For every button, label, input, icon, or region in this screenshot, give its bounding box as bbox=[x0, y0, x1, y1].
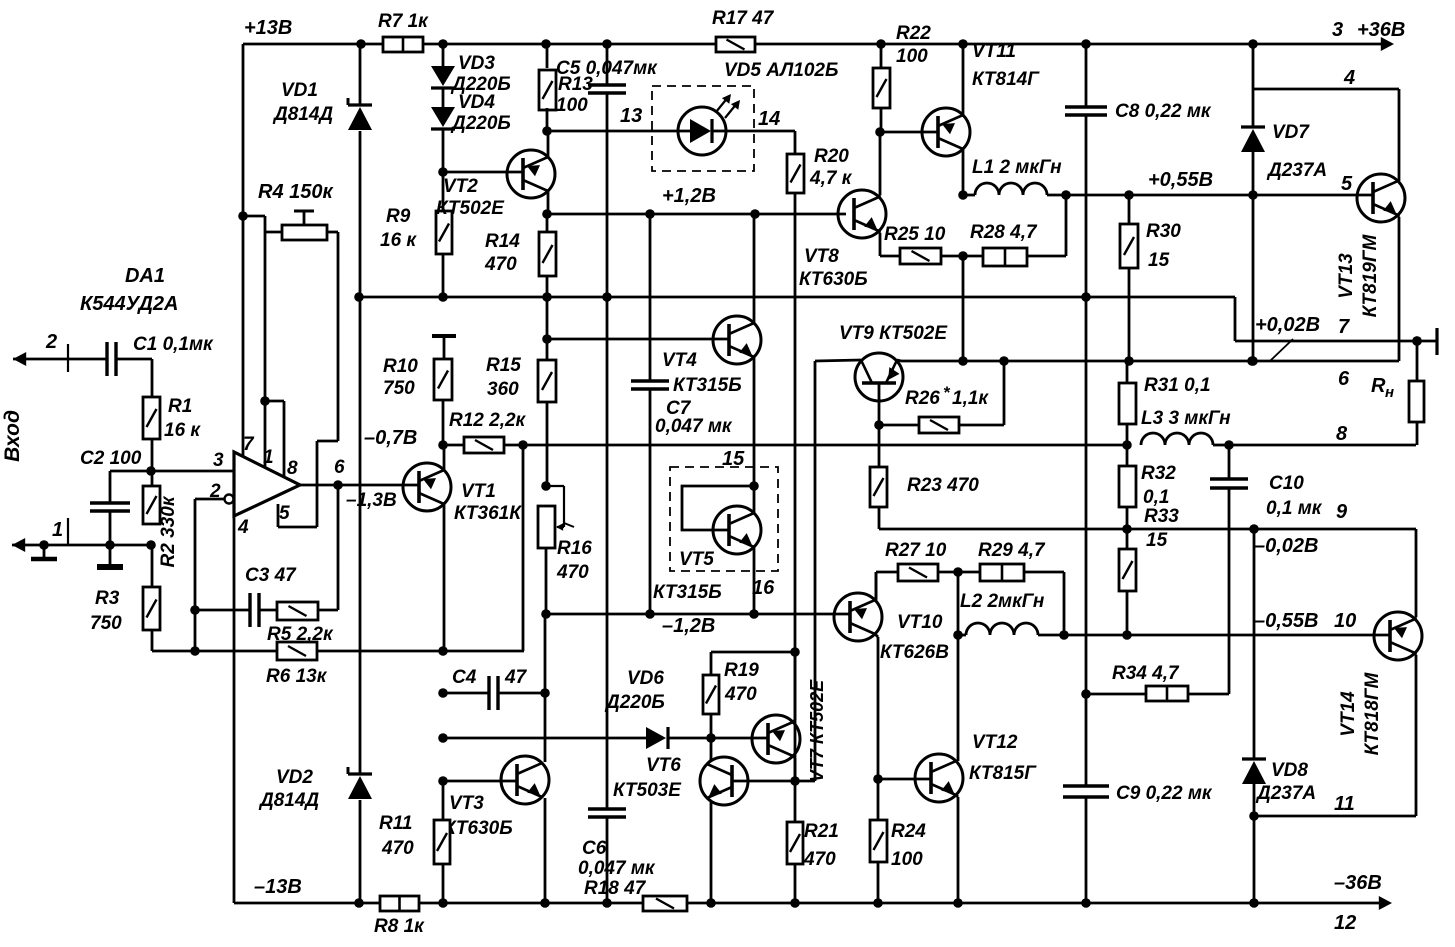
svg-text:VT3: VT3 bbox=[449, 793, 484, 814]
svg-text:VT5: VT5 bbox=[679, 549, 714, 570]
diode VD6 D220B bbox=[646, 727, 666, 749]
wire to C2 bbox=[110, 470, 151, 473]
svg-text:16: 16 bbox=[752, 577, 775, 599]
svg-text:VD2: VD2 bbox=[276, 767, 313, 788]
ground at terminal 1 bbox=[43, 545, 46, 557]
svg-text:VD6: VD6 bbox=[627, 668, 664, 689]
resistor R30 15 bbox=[1128, 195, 1131, 224]
wire +13V vertical to op-amp pin7 bbox=[242, 44, 245, 457]
svg-text:L1 2 мкГн: L1 2 мкГн bbox=[972, 157, 1062, 178]
svg-text:VD7: VD7 bbox=[1272, 122, 1310, 143]
wire VT9 collector left bbox=[815, 360, 861, 361]
wire node down to output bus bbox=[962, 256, 965, 361]
inductor L2 2uH bbox=[966, 623, 1038, 635]
svg-text:Д220Б: Д220Б bbox=[450, 113, 511, 134]
svg-text:КТ819ГМ: КТ819ГМ bbox=[1360, 233, 1381, 317]
wire -36V bottom rail bbox=[234, 902, 380, 905]
svg-text:VD1: VD1 bbox=[281, 80, 318, 101]
wire VT9 collector vertical bbox=[814, 361, 817, 781]
ground under C2 bbox=[105, 540, 115, 550]
svg-text:4,7 к: 4,7 к bbox=[809, 168, 853, 189]
wire VT13 emitter down bbox=[1398, 215, 1399, 217]
transistor VT8 KT630B bbox=[838, 190, 886, 238]
svg-text:8: 8 bbox=[287, 458, 298, 479]
svg-text:R29 4,7: R29 4,7 bbox=[978, 540, 1046, 561]
svg-text:L3 3 мкГн: L3 3 мкГн bbox=[1141, 408, 1231, 429]
svg-text:9: 9 bbox=[1336, 501, 1348, 523]
wire output feedback bus y445 bbox=[523, 444, 1127, 447]
terminal 3 arrow +36V bbox=[1381, 37, 1394, 51]
svg-text:C9 0,22 мк: C9 0,22 мк bbox=[1116, 783, 1213, 804]
transistor VT11 KT814G bbox=[922, 108, 970, 156]
svg-text:2: 2 bbox=[45, 331, 57, 353]
svg-text:0,047 мк: 0,047 мк bbox=[655, 416, 733, 437]
svg-text:VD3: VD3 bbox=[458, 53, 495, 74]
transistor VT13 KT819GM bbox=[1357, 174, 1405, 222]
svg-text:Д814Д: Д814Д bbox=[272, 104, 333, 125]
resistor R10 750 with test tap bbox=[432, 334, 456, 338]
wire top rail right section to +36V bbox=[755, 43, 1386, 46]
wire VT3 collector bbox=[544, 693, 547, 762]
wire VT11 emitter to +36 bbox=[962, 44, 965, 115]
svg-text:100: 100 bbox=[556, 95, 588, 116]
node L1 left bbox=[958, 190, 968, 200]
resistor R6 13k bbox=[277, 642, 317, 660]
resistor R7 1k bbox=[383, 37, 423, 52]
svg-text:R25 10: R25 10 bbox=[884, 224, 946, 245]
trimmer R16 470 bbox=[541, 481, 551, 491]
load resistor Rn bbox=[1412, 336, 1422, 346]
wire VT8 collector up bbox=[879, 195, 880, 197]
wire VT9 base down bbox=[878, 383, 881, 425]
wire VT14 emitter up bbox=[1415, 617, 1416, 619]
svg-text:R23 470: R23 470 bbox=[907, 475, 979, 496]
capacitor C8 0.22uF bbox=[1085, 44, 1088, 107]
svg-text:6: 6 bbox=[334, 457, 345, 478]
svg-text:100: 100 bbox=[891, 849, 923, 870]
wire R28 right up to L1 right bbox=[1027, 255, 1066, 258]
wire C2 to ground line bbox=[109, 511, 112, 545]
node L1 right bbox=[1061, 190, 1071, 200]
svg-text:R2 330к: R2 330к bbox=[158, 495, 179, 567]
resistor R18 47 bbox=[643, 896, 687, 911]
svg-text:–36В: –36В bbox=[1334, 872, 1382, 894]
capacitor C2 100 bbox=[90, 501, 130, 504]
transistor VT5 KT315B diode-connected bbox=[713, 506, 761, 554]
svg-text:470: 470 bbox=[556, 562, 589, 583]
svg-text:–13В: –13В bbox=[254, 876, 302, 898]
resistor R21 470 bbox=[787, 822, 803, 864]
svg-text:R16: R16 bbox=[557, 538, 592, 559]
node C10 top bbox=[1224, 440, 1234, 450]
resistor R25 10 bbox=[900, 248, 941, 264]
resistor R12 2.2k bbox=[443, 444, 464, 447]
wire VT11 collector down bbox=[962, 149, 965, 195]
svg-text:R10: R10 bbox=[383, 356, 418, 377]
svg-text:R20: R20 bbox=[814, 146, 849, 167]
node R4 junction bbox=[238, 211, 248, 221]
wire feedback R6 line bbox=[152, 650, 277, 653]
node L3 left bbox=[1122, 440, 1132, 450]
bottom rail junction dots bbox=[354, 898, 364, 908]
capacitor C9 0.22uF bbox=[1063, 784, 1109, 787]
svg-text:R31 0,1: R31 0,1 bbox=[1144, 375, 1211, 396]
svg-text:R18 47: R18 47 bbox=[584, 878, 647, 899]
wire VT7 emitter up bbox=[793, 720, 795, 722]
wire VT7 collector down bbox=[793, 756, 795, 758]
svg-text:VT1: VT1 bbox=[461, 481, 496, 502]
svg-text:6: 6 bbox=[1338, 368, 1350, 390]
transistor VT3 KT630B bbox=[501, 756, 549, 804]
svg-text:1: 1 bbox=[52, 519, 63, 541]
node VT2 base bbox=[438, 167, 448, 177]
svg-text:5: 5 bbox=[279, 503, 290, 524]
transistor VT7 KT502E bbox=[752, 715, 800, 763]
svg-text:16 к: 16 к bbox=[380, 230, 417, 251]
op-amp DA1 K544UD2A bbox=[234, 452, 300, 516]
svg-text:КТ361К: КТ361К bbox=[454, 503, 522, 524]
svg-text:VT10: VT10 bbox=[897, 612, 943, 633]
svg-text:VT14: VT14 bbox=[1338, 691, 1359, 737]
wire VT10 collector up bbox=[875, 599, 876, 601]
svg-text:VT9 КТ502Е: VT9 КТ502Е bbox=[839, 323, 948, 344]
wire op-amp output bbox=[300, 484, 411, 487]
svg-text:R17 47: R17 47 bbox=[712, 8, 775, 29]
resistor R33 15 bbox=[1126, 529, 1129, 549]
capacitor C7 0.047uF bbox=[649, 214, 652, 381]
resistor R34 4.7 bbox=[1086, 693, 1146, 696]
resistor R3 750 bbox=[151, 545, 154, 587]
svg-text:КТ818ГМ: КТ818ГМ bbox=[1362, 671, 1383, 755]
resistor R15 360 bbox=[546, 297, 549, 360]
node VT8 collector R22 VT11 base bbox=[875, 127, 885, 137]
wire +0.55V line bbox=[1066, 194, 1373, 197]
wire R16 column to C4 bbox=[544, 614, 547, 693]
svg-text:16 к: 16 к bbox=[164, 420, 201, 441]
diode VD7 D237A bbox=[1252, 44, 1255, 127]
wire R4 right to op-amp pin 5 bbox=[337, 232, 340, 441]
svg-text:К544УД2А: К544УД2А bbox=[80, 293, 178, 315]
node 15 bbox=[749, 481, 759, 491]
svg-text:–0,55В: –0,55В bbox=[1254, 610, 1319, 632]
svg-text:R19: R19 bbox=[724, 660, 759, 681]
resistor R27 10 bbox=[898, 564, 938, 581]
resistor R22 100 bbox=[880, 44, 883, 68]
svg-text:VT7 КТ502Е: VT7 КТ502Е bbox=[807, 679, 827, 782]
wire VT4 collector up bbox=[753, 214, 756, 323]
svg-text:VD8: VD8 bbox=[1271, 760, 1308, 781]
svg-text:C8 0,22 мк: C8 0,22 мк bbox=[1115, 101, 1212, 122]
wire VT4 base line bbox=[547, 338, 729, 341]
svg-text:7: 7 bbox=[1338, 316, 1350, 338]
LED arrows bbox=[716, 96, 729, 112]
svg-text:VT11: VT11 bbox=[972, 41, 1016, 62]
svg-text:R30: R30 bbox=[1146, 221, 1181, 242]
svg-text:100: 100 bbox=[896, 46, 928, 67]
wire R25 to R28 node bbox=[941, 255, 983, 258]
svg-text:5: 5 bbox=[1341, 173, 1353, 195]
chassis tick terminal 7 bbox=[1435, 328, 1438, 355]
svg-text:Д237А: Д237А bbox=[1266, 160, 1327, 181]
svg-text:13: 13 bbox=[620, 105, 642, 127]
svg-text:11: 11 bbox=[1334, 793, 1355, 815]
node C4 right bbox=[540, 688, 550, 698]
terminal 12 arrow -36V bbox=[1379, 896, 1392, 910]
wire output bus bbox=[901, 360, 1399, 363]
wire R20 down long vertical bbox=[794, 193, 797, 822]
wire -1.2V line bbox=[546, 613, 850, 616]
svg-text:R11: R11 bbox=[379, 813, 412, 834]
svg-text:3: 3 bbox=[1332, 19, 1343, 41]
svg-text:R21: R21 bbox=[804, 821, 839, 842]
svg-text:C3 47: C3 47 bbox=[245, 565, 297, 586]
svg-text:1,1к: 1,1к bbox=[952, 388, 989, 409]
svg-text:+1,2В: +1,2В bbox=[662, 185, 716, 207]
capacitor C10 0.1uF bbox=[1228, 445, 1231, 479]
svg-text:R3: R3 bbox=[95, 588, 120, 609]
transistor VT10 KT626V bbox=[834, 593, 882, 641]
wire VT14 collector down bbox=[1415, 653, 1416, 655]
wire VT1 emitter up bbox=[443, 445, 446, 470]
capacitor C4 47 bbox=[443, 692, 489, 695]
wire VT3 emitter to rail bbox=[544, 798, 547, 903]
node R34 left bbox=[1081, 689, 1091, 699]
transistor VT2 KT502E bbox=[507, 150, 555, 198]
resistor R8 1k bbox=[380, 896, 419, 911]
wire R3 to R6 line bbox=[151, 630, 154, 651]
svg-text:VD4: VD4 bbox=[458, 92, 495, 113]
resistor R13 100 bbox=[546, 44, 549, 68]
svg-text:КТ315Б: КТ315Б bbox=[653, 582, 722, 603]
wire VT5 emitter to -1.2V bbox=[753, 547, 756, 614]
inductor L3 3uH bbox=[1141, 433, 1213, 445]
wire R29 corner down bbox=[1024, 571, 1064, 574]
wire pin2 to feedback node bbox=[195, 498, 225, 501]
wire VT8 emitter to R25 bbox=[879, 231, 880, 233]
svg-text:R26: R26 bbox=[905, 388, 940, 409]
wire C3 R5 line bbox=[195, 609, 250, 612]
wire mid ground rail bbox=[357, 296, 1235, 299]
svg-text:R22: R22 bbox=[896, 23, 931, 44]
svg-text:R4 150к: R4 150к bbox=[258, 181, 333, 203]
svg-text:Вход: Вход bbox=[1, 410, 24, 462]
svg-text:–1,2В: –1,2В bbox=[662, 615, 715, 637]
svg-text:8: 8 bbox=[1336, 423, 1348, 445]
wire +1.2V line bbox=[547, 213, 846, 216]
transistor VT6 KT503E bbox=[700, 757, 748, 805]
capacitor C1 0.1uF bbox=[105, 342, 108, 376]
wire -0.02V line bbox=[879, 528, 1415, 531]
resistor R31 0.1 bbox=[1126, 361, 1129, 383]
resistor R29 4.7 bbox=[980, 564, 1024, 581]
svg-text:10: 10 bbox=[1334, 610, 1356, 632]
svg-text:R15: R15 bbox=[486, 355, 521, 376]
svg-text:C2 100: C2 100 bbox=[80, 448, 142, 469]
svg-text:КТ814Г: КТ814Г bbox=[972, 69, 1040, 90]
wire R1 to pin3 node bbox=[151, 439, 154, 471]
svg-text:C10: C10 bbox=[1269, 473, 1304, 494]
svg-text:360: 360 bbox=[487, 379, 519, 400]
wire VT6 emitter to rail bbox=[707, 798, 711, 801]
svg-text:R32: R32 bbox=[1141, 463, 1176, 484]
wire terminal 4 line bbox=[1253, 88, 1399, 91]
wire VT12 base line bbox=[878, 778, 931, 781]
svg-text:VT13: VT13 bbox=[1336, 253, 1357, 299]
wire VT1 collector down bbox=[443, 504, 446, 651]
capacitor C6 0.047uF bbox=[606, 297, 609, 809]
zener VD1 D814D bbox=[359, 44, 362, 105]
svg-text:750: 750 bbox=[383, 378, 415, 399]
wire VT12 collector bbox=[957, 572, 960, 635]
svg-text:+13В: +13В bbox=[244, 17, 292, 39]
svg-text:47: 47 bbox=[504, 667, 528, 688]
svg-text:VT4: VT4 bbox=[662, 350, 697, 371]
svg-text:VT2: VT2 bbox=[443, 176, 478, 197]
svg-text:КТ630Б: КТ630Б bbox=[799, 269, 868, 290]
svg-text:КТ626В: КТ626В bbox=[880, 642, 949, 663]
wire VT3 base line bbox=[443, 780, 517, 783]
resistor R2 330k bbox=[143, 486, 160, 524]
svg-text:750: 750 bbox=[90, 613, 122, 634]
svg-text:КТ503Е: КТ503Е bbox=[613, 780, 682, 801]
svg-text:4: 4 bbox=[237, 517, 249, 538]
transistor VT1 KT361K bbox=[403, 463, 451, 511]
wire mid rail jog to output bbox=[1234, 297, 1237, 341]
svg-text:12: 12 bbox=[1334, 912, 1356, 934]
resistor R26 1.1k bbox=[879, 424, 919, 427]
svg-text:L2 2мкГн: L2 2мкГн bbox=[960, 591, 1045, 612]
wire VT6 base line bbox=[732, 780, 795, 783]
svg-text:7: 7 bbox=[243, 434, 255, 455]
svg-text:C6: C6 bbox=[582, 838, 607, 859]
svg-text:14: 14 bbox=[758, 108, 780, 130]
svg-text:470: 470 bbox=[803, 849, 836, 870]
svg-text:R24: R24 bbox=[891, 821, 926, 842]
resistor R1 16k bbox=[143, 397, 160, 439]
node +1.2V left bbox=[542, 209, 552, 219]
svg-text:Д237А: Д237А bbox=[1255, 783, 1316, 804]
svg-text:–0,02В: –0,02В bbox=[1254, 535, 1319, 557]
node L2 left VT12 collector bbox=[953, 630, 963, 640]
node VT6 base VT7 collector bbox=[790, 776, 800, 786]
svg-text:R9: R9 bbox=[386, 206, 411, 227]
transistor VT2 emitter to +1.2V line bbox=[547, 191, 550, 214]
svg-text:Д220Б: Д220Б bbox=[604, 692, 665, 713]
capacitor C5 0.047uF bbox=[606, 44, 609, 85]
svg-text:н: н bbox=[1385, 384, 1394, 401]
wire terminal 11 line bbox=[1254, 815, 1416, 818]
wire R27 R29 line bbox=[875, 572, 878, 601]
wire VT6 collector up bbox=[707, 760, 711, 764]
svg-text:15: 15 bbox=[1146, 530, 1168, 551]
svg-text:R8 1к: R8 1к bbox=[374, 916, 425, 937]
wire VD6 line bbox=[443, 737, 646, 740]
svg-text:КТ815Г: КТ815Г bbox=[969, 763, 1037, 784]
svg-text:R: R bbox=[1371, 375, 1386, 397]
svg-text:R6 13к: R6 13к bbox=[266, 666, 328, 687]
svg-text:470: 470 bbox=[724, 684, 757, 705]
svg-text:+0,02В: +0,02В bbox=[1255, 314, 1320, 336]
svg-text:VT12: VT12 bbox=[972, 732, 1018, 753]
wire VT2 base line bbox=[443, 171, 523, 174]
wire +36V top rail left section (+13V feed) bbox=[243, 43, 383, 46]
svg-text:R7 1к: R7 1к bbox=[378, 11, 429, 32]
svg-text:470: 470 bbox=[381, 838, 414, 859]
svg-text:C4: C4 bbox=[452, 667, 477, 688]
svg-text:3: 3 bbox=[213, 450, 224, 471]
resistor R32 0.1 bbox=[1126, 445, 1129, 466]
node R27 R29 bbox=[953, 567, 963, 577]
wire VT5 collector bbox=[753, 486, 756, 514]
VT5 dashed box bbox=[670, 467, 778, 571]
transistor VT9 KT502E rotated bbox=[855, 353, 903, 401]
resistor R5 2.2k bbox=[277, 602, 318, 620]
node R16 bottom -1.2V line left end bbox=[541, 609, 551, 619]
terminal 1 input arrow bbox=[12, 538, 25, 552]
svg-text:0,1 мк: 0,1 мк bbox=[1266, 498, 1323, 519]
transistor VT12 KT815G bbox=[915, 754, 963, 802]
wire VD6 to VT7 base bbox=[668, 737, 768, 740]
svg-text:C5 0,047мк: C5 0,047мк bbox=[556, 58, 658, 79]
node L2 right bbox=[1059, 630, 1069, 640]
wire VT12 emitter to rail bbox=[956, 795, 958, 797]
resistor R14 470 bbox=[539, 232, 556, 276]
wire LED line 13 bbox=[547, 130, 678, 133]
wire pin3 line bbox=[151, 470, 234, 473]
wire pin4 to -13V rail bbox=[233, 516, 236, 903]
svg-text:VT6: VT6 bbox=[646, 755, 681, 776]
resistor R23 470 bbox=[878, 425, 881, 467]
svg-text:C1 0,1мк: C1 0,1мк bbox=[133, 334, 214, 355]
wire R4 left to op-amp pins 1,8 bbox=[264, 216, 267, 467]
svg-text:0,047 мк: 0,047 мк bbox=[578, 858, 656, 879]
svg-text:R34 4,7: R34 4,7 bbox=[1112, 663, 1180, 684]
wire R19 top line to VT7 emitter bbox=[711, 651, 795, 654]
svg-text:Д814Д: Д814Д bbox=[258, 790, 319, 811]
wire node 14 to R20 bbox=[726, 130, 795, 133]
svg-text:КТ502Е: КТ502Е bbox=[436, 198, 505, 219]
capacitor C3 47 bbox=[248, 593, 251, 627]
svg-text:R14: R14 bbox=[485, 231, 520, 252]
svg-text:R33: R33 bbox=[1144, 506, 1179, 527]
transistor VT14 KT818GM bbox=[1374, 612, 1422, 660]
svg-text:VT8: VT8 bbox=[804, 246, 839, 267]
node -0.7V bbox=[438, 440, 448, 450]
trimmer R4 150k bbox=[243, 215, 265, 218]
svg-text:15: 15 bbox=[1148, 250, 1170, 271]
wire VT4 emitter down bbox=[753, 357, 756, 486]
node R25 R28 bbox=[958, 251, 968, 261]
inductor L1 2uH bbox=[975, 183, 1047, 195]
diode VD3 D220B bbox=[442, 44, 445, 66]
svg-text:1: 1 bbox=[263, 447, 274, 468]
wire C1 to R1 bbox=[116, 358, 152, 361]
wire L3 line to Rn bbox=[1229, 444, 1416, 447]
wire -0.55V line bbox=[1064, 634, 1390, 637]
transistor VT4 KT315B bbox=[713, 316, 761, 364]
svg-text:+36В: +36В bbox=[1357, 19, 1405, 41]
wire VT2 collector to node 13 bbox=[547, 131, 550, 157]
svg-text:R28 4,7: R28 4,7 bbox=[970, 222, 1038, 243]
svg-text:0,1: 0,1 bbox=[1143, 487, 1169, 508]
resistor R28 4.7 bbox=[983, 248, 1027, 266]
resistor R24 100 bbox=[870, 820, 887, 862]
diode VD4 D220B bbox=[442, 88, 445, 107]
node R2 R3 bbox=[146, 540, 156, 550]
zener VD2 D814D bbox=[359, 297, 362, 774]
LED VD5 symbol bbox=[678, 107, 726, 155]
wire R6 corner up to R12 node bbox=[522, 445, 525, 651]
